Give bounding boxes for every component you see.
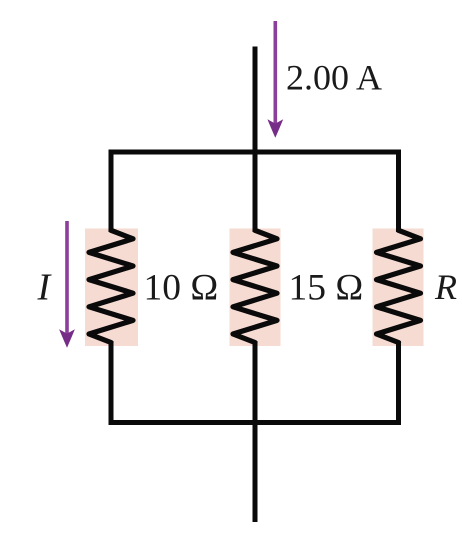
wire: left branch top lead bbox=[109, 150, 114, 233]
wire: bottom feed out of node at bottom bus bbox=[253, 423, 258, 523]
wire: right branch top lead bbox=[396, 150, 401, 233]
wire: top bus bbox=[109, 150, 402, 155]
wire: left branch bottom lead bbox=[109, 341, 114, 425]
wire: middle branch top lead bbox=[253, 152, 258, 232]
resistor highlight (10 ohm) bbox=[85, 229, 138, 347]
resistor R1 10 ohm (zigzag) bbox=[89, 230, 133, 342]
wire: bottom bus bbox=[109, 420, 402, 425]
wire: top feed into node at top bus bbox=[253, 47, 258, 153]
current arrow I (shaft) bbox=[59, 221, 75, 348]
svg-text:15 Ω: 15 Ω bbox=[289, 268, 364, 309]
wire: right branch bottom lead bbox=[396, 341, 401, 425]
resistor R2 15 ohm (zigzag) bbox=[233, 230, 277, 342]
resistor highlight (R) bbox=[373, 229, 424, 347]
resistor highlight (15 ohm) bbox=[230, 229, 281, 347]
current arrow 2.00 A (shaft) bbox=[267, 21, 283, 138]
svg-text:2.00 A: 2.00 A bbox=[286, 58, 382, 98]
svg-text:I: I bbox=[37, 267, 53, 309]
resistor R3 R (zigzag) bbox=[377, 230, 421, 342]
svg-text:R: R bbox=[434, 267, 457, 307]
wire: middle branch bottom lead bbox=[253, 341, 258, 423]
svg-text:10 Ω: 10 Ω bbox=[144, 268, 219, 309]
